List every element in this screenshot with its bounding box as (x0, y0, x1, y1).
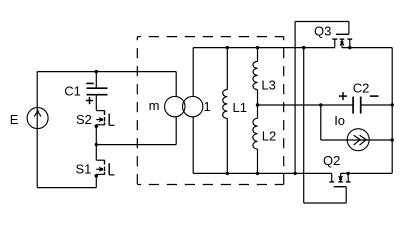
node center tap (256, 103, 259, 106)
node midpoint junction (95, 143, 98, 146)
node C2 right junction (391, 103, 394, 106)
svg-text:C2: C2 (353, 81, 370, 96)
inductor L2 (253, 105, 258, 173)
node gate-line bottom (293, 172, 296, 175)
wire secondary top rail (193, 47, 392, 49)
svg-text:S2: S2 (76, 112, 92, 127)
wire secondary bottom lead (192, 117, 194, 174)
svg-text:Q2: Q2 (323, 153, 340, 168)
wire branch drop (320, 105, 322, 140)
wire Q3 gate loop (295, 22, 349, 35)
source E (27, 108, 48, 129)
wire S1 to bottom rail (95, 174, 97, 187)
svg-text:Io: Io (334, 113, 345, 128)
node L1 bottom (226, 172, 229, 175)
wire Io right lead (369, 139, 392, 141)
node S1 source dot (95, 174, 99, 178)
source Io (347, 129, 369, 151)
svg-text:C1: C1 (64, 84, 81, 99)
svg-text:S1: S1 (76, 161, 92, 176)
wire top-left rail (37, 71, 176, 73)
wire S2 to midpoint (95, 125, 97, 145)
wire left vertical (E branch) (36, 72, 38, 188)
svg-text:1: 1 (204, 99, 211, 114)
wire right rail (391, 48, 393, 174)
wire Q3 gate link (crossed vertical A) (294, 22, 296, 174)
wire Q2 gate loop (304, 187, 347, 203)
node gate-line top (302, 46, 305, 49)
svg-text:Q3: Q3 (314, 24, 331, 39)
node L3 top (256, 46, 259, 49)
capacitor C2 (339, 92, 392, 114)
svg-text:L2: L2 (262, 129, 276, 144)
node Io right junction (391, 138, 394, 141)
node Q3 drain (348, 46, 351, 49)
wire bottom-left rail (37, 187, 96, 189)
wire primary top lead (175, 72, 177, 97)
transformer T1 secondary winding (183, 96, 203, 116)
dashed box (resonant tank) (137, 37, 283, 185)
wire Io left lead (321, 139, 347, 141)
node L2 bottom (256, 172, 259, 175)
transistor Q3 (332, 34, 352, 47)
wire Q2 gate link (vertical B) (303, 48, 305, 203)
capacitor C1 (86, 72, 108, 111)
inductor L1 (223, 48, 228, 174)
inductor L3 (253, 48, 258, 105)
transistor S1 (96, 145, 114, 175)
svg-text:L3: L3 (261, 78, 275, 93)
node C1-top junction (95, 70, 98, 73)
node Q2 drain (347, 172, 350, 175)
svg-text:E: E (10, 112, 19, 127)
wire secondary bottom rail (193, 172, 392, 174)
node S2 source dot (95, 124, 99, 128)
node L1 top (226, 46, 229, 49)
wire center tap to output (258, 104, 353, 106)
transistor S2 (96, 110, 114, 125)
wire secondary top lead (192, 48, 194, 97)
transistor Q2 (329, 173, 350, 186)
svg-text:L1: L1 (233, 100, 247, 115)
node C2/Io branch split (319, 103, 322, 106)
transformer T1 primary winding (165, 96, 185, 116)
wire midpoint to transformer (96, 117, 176, 145)
svg-text:m: m (149, 98, 160, 113)
